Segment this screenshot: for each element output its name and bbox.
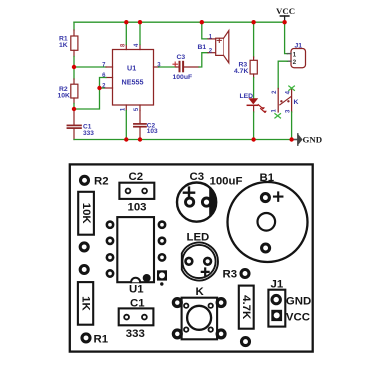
- PCB board outline: [70, 164, 313, 351]
- wire C3 to B1 pin2: [199, 53, 208, 67]
- pad R3 top: [241, 270, 249, 278]
- pin 6: [106, 77, 113, 79]
- wire VCC down to J1 pin1: [285, 22, 288, 53]
- svg-text:4.7K: 4.7K: [234, 68, 248, 75]
- wire R2 to node: [73, 104, 75, 110]
- svg-text:VCC: VCC: [286, 311, 310, 323]
- svg-text:333: 333: [83, 130, 94, 137]
- pin 4: [139, 45, 141, 50]
- svg-text:1: 1: [293, 51, 297, 58]
- pin 7: [106, 66, 113, 68]
- svg-text:333: 333: [126, 328, 145, 340]
- resistor R2: [58, 79, 78, 104]
- pin 2: [104, 87, 113, 89]
- U1 right pads: [159, 222, 165, 228]
- wire K to rail: [291, 112, 293, 140]
- wire rail to B1 pin1: [202, 22, 208, 39]
- svg-text:C2: C2: [129, 171, 144, 183]
- resistor R1: [59, 30, 78, 57]
- svg-text:R1: R1: [94, 334, 109, 346]
- wire pin2 node: [100, 87, 105, 89]
- U1 notch: [131, 278, 140, 283]
- U1 pin1 square pad: [157, 270, 167, 280]
- svg-text:K: K: [196, 286, 205, 298]
- svg-text:2: 2: [293, 59, 297, 66]
- pad R2 bottom: [80, 243, 88, 251]
- capacitor C2: [134, 111, 158, 140]
- pushbutton K: [272, 86, 299, 118]
- svg-text:1K: 1K: [80, 296, 92, 311]
- wire pin8 to rail: [125, 22, 127, 44]
- ground: [292, 134, 322, 145]
- pin 5: [139, 105, 141, 111]
- svg-text:10K: 10K: [58, 93, 71, 100]
- wire R3 to LED: [253, 78, 255, 99]
- wire rail to R3: [253, 22, 255, 57]
- resistor body 10K: [78, 192, 94, 235]
- capacitor C3 100uF: [173, 54, 200, 81]
- wire node to pin7: [74, 66, 106, 68]
- svg-text:C3: C3: [177, 54, 186, 61]
- wire node down to R2: [73, 67, 75, 79]
- wire LED to rail: [253, 106, 255, 112]
- pad R2: [81, 176, 89, 184]
- wire pin4 to rail: [139, 22, 141, 44]
- svg-text:1K: 1K: [59, 42, 68, 49]
- svg-text:U1: U1: [127, 64, 136, 73]
- pad R3 bottom: [242, 338, 250, 346]
- svg-text:LED: LED: [187, 231, 210, 243]
- LED D1: [240, 93, 267, 113]
- svg-text:GND: GND: [286, 296, 311, 308]
- wire J1 pin2 to K: [278, 61, 287, 88]
- U1 pin1 dot marker: [143, 274, 151, 282]
- svg-text:J1: J1: [295, 43, 303, 50]
- pin 3: [154, 66, 159, 68]
- svg-text:103: 103: [147, 128, 158, 135]
- pin 8: [125, 45, 127, 50]
- svg-text:NE555: NE555: [122, 77, 144, 86]
- VCC power symbol: [276, 6, 295, 22]
- resistor body 1K: [78, 282, 93, 325]
- svg-text:100uF: 100uF: [173, 74, 193, 81]
- pin 1: [125, 105, 127, 111]
- wire pin3 to C3: [159, 66, 177, 68]
- wire pin1 to bottom rail: [125, 111, 127, 140]
- op-amp U1 NE555 box: [113, 50, 154, 106]
- svg-text:B1: B1: [198, 44, 207, 51]
- wire bottom rail: [74, 139, 292, 141]
- svg-text:K: K: [294, 99, 299, 106]
- speaker B1: [198, 31, 229, 63]
- small drill dot: [160, 282, 163, 285]
- svg-text:R2: R2: [94, 176, 109, 188]
- wire pin6 to node: [100, 78, 107, 89]
- wire top rail: [74, 21, 285, 23]
- IC U1 footprint: [117, 217, 154, 282]
- U1 left pads: [107, 222, 113, 228]
- svg-text:100uF: 100uF: [210, 175, 243, 187]
- wire node down and left to R2/C1 node: [76, 88, 100, 109]
- resistor body 4.7K: [239, 286, 254, 329]
- svg-text:10K: 10K: [80, 203, 92, 225]
- svg-text:C3: C3: [190, 171, 205, 183]
- svg-text:U1: U1: [129, 284, 144, 296]
- connector J1: [287, 43, 305, 68]
- pad R1 top: [80, 266, 88, 274]
- svg-text:GND: GND: [303, 135, 323, 145]
- svg-text:R3: R3: [223, 268, 238, 280]
- capacitor C1: [67, 109, 94, 140]
- junction dots: [72, 65, 76, 69]
- svg-text:VCC: VCC: [276, 6, 295, 16]
- svg-text:103: 103: [128, 202, 147, 214]
- svg-text:4.7K: 4.7K: [240, 295, 252, 320]
- wire left column top: [73, 22, 75, 30]
- resistor R3: [234, 57, 257, 78]
- wire R1 to node: [73, 57, 75, 68]
- pad R1: [82, 334, 90, 342]
